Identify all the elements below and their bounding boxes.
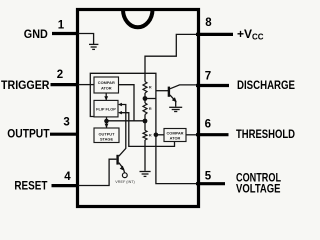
svg-text:8: 8 [205, 17, 212, 29]
svg-text:COMPAR: COMPAR [98, 80, 115, 85]
svg-text:R: R [149, 106, 152, 111]
svg-text:TRIGGER: TRIGGER [1, 78, 50, 92]
svg-text:4: 4 [64, 171, 71, 183]
svg-text:7: 7 [205, 70, 211, 82]
svg-text:R: R [149, 132, 152, 137]
svg-text:FLIP FLOP: FLIP FLOP [96, 106, 116, 111]
svg-text:DISCHARGE: DISCHARGE [237, 78, 295, 92]
svg-text:VOLTAGE: VOLTAGE [236, 182, 281, 196]
svg-text:GND: GND [24, 27, 48, 41]
svg-text:THRESHOLD: THRESHOLD [236, 127, 295, 141]
svg-text:6: 6 [205, 119, 211, 131]
svg-text:STAGE: STAGE [100, 137, 114, 142]
svg-text:RESET: RESET [14, 178, 48, 192]
svg-text:OUTPUT: OUTPUT [7, 127, 50, 141]
svg-text:3: 3 [63, 116, 69, 128]
svg-text:R: R [149, 85, 152, 90]
svg-text:2: 2 [57, 69, 63, 81]
svg-text:1: 1 [58, 19, 65, 31]
svg-text:5: 5 [205, 170, 212, 182]
svg-text:ATOR: ATOR [170, 136, 181, 141]
svg-text:VREF (INT): VREF (INT) [115, 179, 135, 184]
svg-text:ATOR: ATOR [101, 86, 112, 91]
